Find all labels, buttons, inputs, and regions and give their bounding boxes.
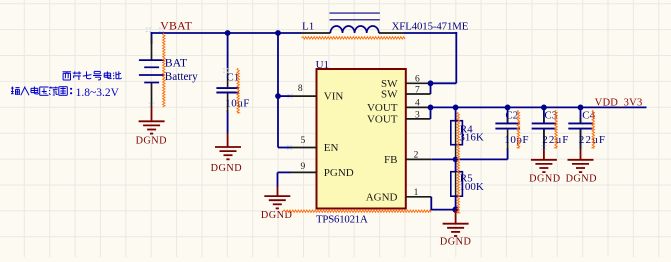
junction rail-R4 — [453, 105, 459, 111]
wire VIN to EN vertical — [277, 96, 279, 147]
wire C3 to ground — [543, 129, 545, 149]
wire pin3 to pin4 link — [430, 107, 432, 119]
op-amp U1 TPS61021A body — [317, 69, 406, 209]
junction rail-C4 — [578, 105, 584, 111]
wire to VIN pin — [278, 95, 291, 97]
squiggle C1 — [237, 68, 239, 113]
ground DGND battery — [139, 121, 165, 133]
svg-text:SW: SW — [381, 89, 398, 101]
svg-text:XFL4015-471ME: XFL4015-471ME — [392, 20, 469, 32]
pin 4 VOUT — [406, 106, 431, 108]
squiggle battery wire — [163, 33, 165, 107]
svg-text:6: 6 — [415, 75, 420, 85]
svg-text:7: 7 — [415, 86, 420, 96]
svg-text:1.8~3.2V: 1.8~3.2V — [76, 87, 120, 99]
wire R4 through-pin — [455, 121, 457, 160]
svg-text:10pF: 10pF — [504, 134, 529, 146]
ground stem battery — [151, 107, 153, 122]
svg-text:2: 2 — [414, 151, 419, 161]
resistor R4 — [451, 121, 463, 145]
squiggle C4 — [592, 110, 594, 148]
pin 9 PGND — [291, 171, 317, 173]
svg-text:4: 4 — [415, 99, 420, 109]
wire rail to C1 — [227, 33, 229, 70]
junction rail-C1 — [225, 30, 231, 36]
ground DGND AGND — [443, 224, 469, 236]
wire C2 to FB — [507, 148, 509, 159]
svg-text:Battery: Battery — [165, 71, 198, 83]
svg-text:PGND: PGND — [324, 167, 354, 179]
svg-text:TPS61021A: TPS61021A — [316, 213, 368, 225]
annotation text line 1 (Chinese) — [63, 71, 122, 80]
svg-text:DGND: DGND — [211, 163, 242, 174]
svg-text:DGND: DGND — [529, 174, 560, 185]
wire AGND to ground node — [430, 209, 455, 211]
svg-text:3: 3 — [415, 110, 420, 120]
pin 5 EN — [291, 147, 317, 149]
pin 8 VIN — [291, 95, 317, 97]
wire C4 to ground — [580, 129, 582, 149]
annotation text line 2 (Chinese + 1.8~3.2V) — [11, 87, 72, 96]
battery BAT — [151, 37, 153, 107]
ground DGND PGND — [264, 196, 290, 208]
wire rail down to VIN — [277, 33, 279, 96]
wire FB net horizontal — [431, 158, 507, 160]
wire rail to C3 — [543, 107, 545, 122]
wire VOUT rail VDD_3V3 — [431, 106, 647, 108]
pin 6 SW — [406, 82, 431, 84]
svg-text:FB: FB — [384, 154, 397, 166]
wire SW vertical — [455, 32, 457, 83]
svg-text:U1: U1 — [316, 59, 329, 71]
junction VIN-EN — [275, 93, 281, 99]
svg-text:VOUT: VOUT — [367, 113, 398, 125]
svg-text:VBAT: VBAT — [160, 19, 192, 33]
ground stem PGND — [277, 186, 279, 196]
wire PGND down to ground — [277, 172, 279, 187]
wire SW horizontal to pin 6 — [431, 82, 457, 84]
pin 7 SW — [406, 93, 431, 95]
squiggle C2 — [517, 110, 519, 148]
ground DGND C1 — [215, 147, 241, 159]
svg-text:L1: L1 — [302, 21, 314, 33]
svg-text:BAT: BAT — [165, 56, 188, 70]
wire rail to C2 — [507, 107, 509, 122]
wire FB to R5 — [455, 159, 457, 171]
squiggle R4 R5 — [457, 112, 459, 213]
svg-text:316K: 316K — [459, 132, 484, 144]
ground stem C1 — [227, 133, 229, 147]
wire rail to R4 — [455, 107, 457, 120]
svg-text:9: 9 — [300, 162, 305, 172]
ground stem C3 — [543, 149, 545, 160]
svg-text:VDD_3V3: VDD_3V3 — [595, 98, 643, 109]
wire VBAT rail — [151, 32, 301, 34]
squiggle C3 — [555, 110, 557, 148]
junction SW pin6 — [428, 80, 434, 86]
ground stem C4 — [580, 149, 582, 160]
svg-text:DGND: DGND — [136, 135, 167, 146]
wire pin7 to pin6 link — [430, 82, 432, 94]
svg-text:AGND: AGND — [366, 191, 398, 203]
pin 3 VOUT — [406, 118, 431, 120]
wire L1 to SW corner — [404, 32, 457, 34]
ground DGND C4 — [568, 160, 594, 172]
junction rail-VIN — [275, 30, 281, 36]
capacitor C1 — [227, 70, 229, 112]
wire PGND pin to corner — [278, 171, 291, 173]
capacitor C4 — [580, 118, 582, 149]
inductor L1 — [301, 32, 404, 34]
squiggle under L1 — [302, 37, 406, 39]
svg-text:DGND: DGND — [566, 174, 597, 185]
pin 2 FB — [406, 158, 432, 160]
svg-text:8: 8 — [298, 84, 303, 94]
ground DGND C3 — [531, 160, 557, 172]
pin 1 AGND — [406, 196, 432, 198]
svg-text:C2: C2 — [505, 109, 518, 121]
svg-text:VIN: VIN — [324, 91, 344, 103]
ground stem AGND — [455, 210, 457, 224]
wire battery to rail — [151, 32, 153, 44]
junction FB node — [453, 157, 459, 163]
junction VOUT pin4 — [428, 105, 434, 111]
junction rail-C3 — [541, 105, 547, 111]
svg-text:DGND: DGND — [440, 237, 471, 248]
capacitor C3 — [543, 118, 545, 149]
svg-text:5: 5 — [300, 136, 305, 146]
junction rail-C2 — [505, 105, 511, 111]
wire to EN pin — [278, 147, 291, 149]
svg-text:100K: 100K — [459, 181, 484, 193]
resistor R5 — [451, 172, 463, 197]
svg-text:1: 1 — [414, 188, 419, 198]
svg-text:VOUT: VOUT — [367, 102, 398, 114]
junction AGND node — [452, 206, 458, 212]
wire AGND pin down — [430, 197, 432, 211]
squiggle under U1 — [283, 210, 431, 212]
wire rail to C4 — [580, 107, 582, 122]
pin end markers — [287, 94, 292, 97]
capacitor C2 — [507, 118, 509, 150]
wire C1 to ground — [227, 110, 229, 134]
svg-text:EN: EN — [324, 142, 339, 154]
wire R5 through-pin — [455, 172, 457, 197]
wire R5 to AGND node — [455, 196, 457, 209]
